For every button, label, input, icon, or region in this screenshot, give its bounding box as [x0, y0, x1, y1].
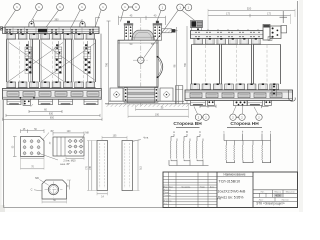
svg-text:796: 796: [106, 62, 109, 67]
svg-text:650: 650: [50, 116, 55, 119]
svg-text:В: В: [186, 130, 188, 134]
svg-text:М6: М6: [35, 177, 39, 180]
svg-text:172: 172: [226, 13, 231, 16]
svg-text:790: 790: [184, 62, 187, 67]
svg-text:ТСЛ-315В/10: ТСЛ-315В/10: [219, 180, 241, 184]
svg-text:390: 390: [54, 18, 59, 21]
svg-text:Н.контр.: Н.контр.: [164, 201, 172, 203]
svg-text:Т.контр.: Т.контр.: [164, 195, 172, 197]
svg-text:Лит.: Лит.: [260, 192, 264, 194]
svg-text:Масса: Масса: [274, 192, 281, 194]
svg-text:ЭТК «Электрощит»: ЭТК «Электрощит»: [256, 202, 285, 206]
svg-text:630: 630: [49, 113, 54, 116]
svg-text:Масштаб: Масштаб: [286, 192, 296, 194]
svg-text:Пров.: Пров.: [164, 192, 170, 194]
svg-text:Разраб.: Разраб.: [164, 189, 172, 191]
svg-text:Подп.: Подп.: [200, 187, 206, 189]
svg-text:520: 520: [247, 7, 252, 11]
svg-text:172: 172: [267, 13, 272, 16]
svg-text:А: А: [173, 130, 175, 134]
svg-text:Изм: Изм: [164, 187, 168, 189]
svg-text:Дун11 Uк: 5.95%: Дун11 Uк: 5.95%: [218, 196, 244, 200]
svg-text:Утв.: Утв.: [164, 203, 168, 205]
svg-text:Сторона НН: Сторона НН: [230, 121, 259, 127]
svg-text:Сторона ВН: Сторона ВН: [173, 121, 202, 127]
svg-text:190: 190: [155, 113, 160, 116]
svg-text:10±2X2.5%/0.4кВ: 10±2X2.5%/0.4кВ: [218, 190, 246, 194]
svg-text:Наименование: Наименование: [223, 172, 245, 176]
svg-text:С: С: [31, 188, 33, 191]
svg-text:Лист: Лист: [169, 187, 173, 189]
svg-text:4отв.: 4отв.: [143, 137, 149, 139]
svg-text:№ докум.: № докум.: [181, 186, 191, 189]
svg-text:4090: 4090: [275, 194, 281, 198]
svg-text:С: С: [199, 130, 201, 134]
svg-text:зенк. 45°: зенк. 45°: [60, 163, 70, 166]
